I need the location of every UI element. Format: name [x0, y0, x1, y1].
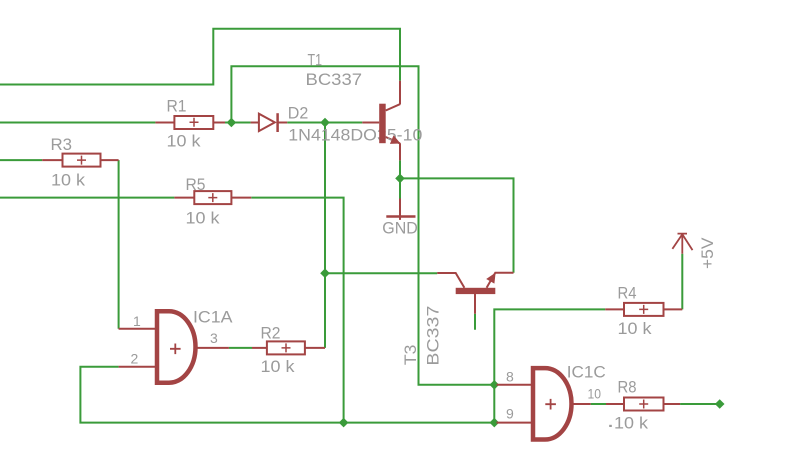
svg-text:10: 10 [588, 386, 602, 402]
svg-text:R1: R1 [167, 97, 187, 116]
svg-text:10 k: 10 k [51, 171, 86, 190]
svg-text:10 k: 10 k [614, 414, 649, 433]
svg-text:T3: T3 [401, 345, 420, 366]
svg-text:1N4148DO35-10: 1N4148DO35-10 [288, 126, 422, 145]
svg-text:10 k: 10 k [167, 132, 202, 151]
svg-text:1: 1 [133, 313, 141, 329]
svg-text:+5V: +5V [698, 237, 717, 269]
svg-text:9: 9 [506, 406, 514, 422]
svg-text:BC337: BC337 [423, 306, 442, 366]
svg-text:R8: R8 [618, 378, 637, 397]
svg-text:R5: R5 [186, 175, 206, 194]
svg-text:R2: R2 [261, 324, 281, 343]
svg-text:10 k: 10 k [261, 357, 296, 376]
svg-text:2: 2 [131, 351, 139, 367]
svg-text:IC1A: IC1A [193, 308, 233, 327]
svg-text:T1: T1 [308, 51, 323, 70]
svg-text:R3: R3 [51, 135, 73, 154]
svg-text:BC337: BC337 [306, 70, 363, 89]
svg-text:10 k: 10 k [186, 209, 221, 228]
svg-text:3: 3 [210, 330, 218, 346]
svg-text:IC1C: IC1C [567, 363, 606, 382]
svg-text:GND: GND [382, 219, 418, 238]
svg-text:8: 8 [506, 369, 514, 385]
svg-text:D2: D2 [288, 103, 309, 122]
svg-text:10 k: 10 k [618, 319, 653, 338]
svg-text:R4: R4 [618, 284, 637, 303]
